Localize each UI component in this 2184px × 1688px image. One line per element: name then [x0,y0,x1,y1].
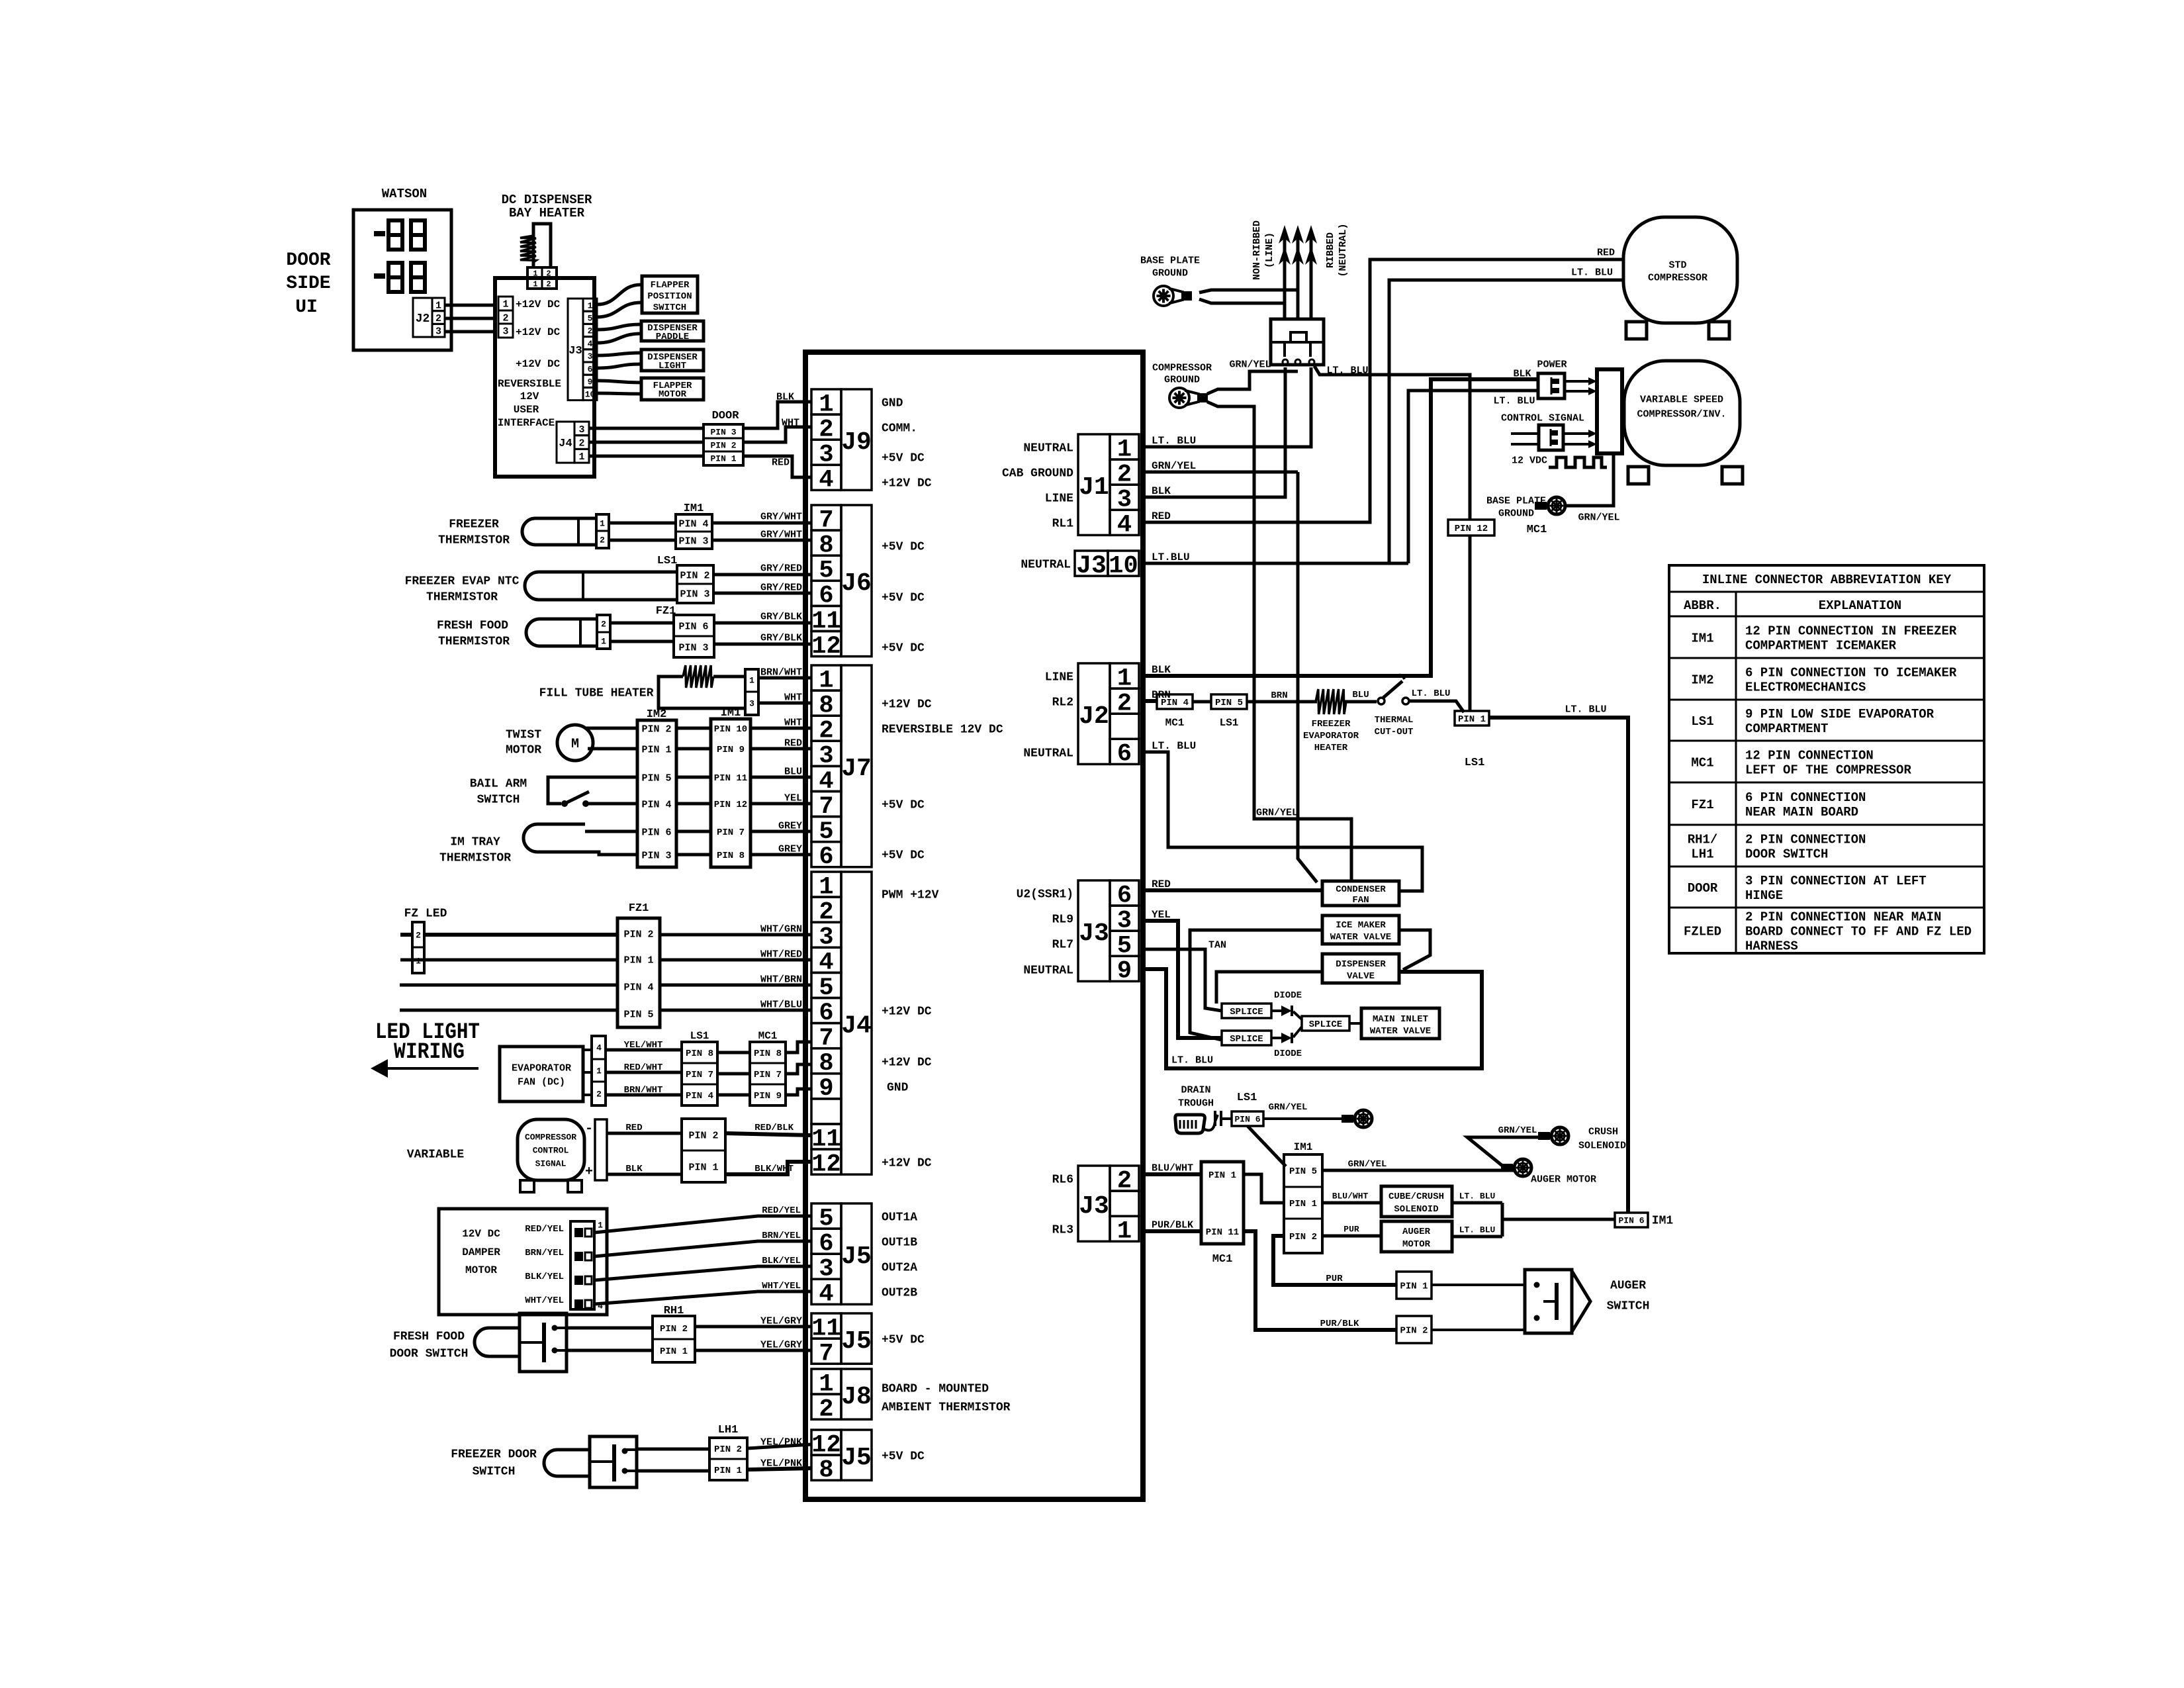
svg-text:2 PIN CONNECTION: 2 PIN CONNECTION [1745,832,1866,847]
svg-text:RED/YEL: RED/YEL [525,1224,564,1235]
svg-text:GRY/WHT: GRY/WHT [760,511,802,522]
wire PUR IM1 PIN2 to auger motor [1322,1225,1381,1236]
J2 pin labels [1023,671,1073,760]
svg-text:PIN 5: PIN 5 [1289,1166,1317,1177]
svg-text:VALVE: VALVE [1347,971,1375,982]
svg-text:3: 3 [502,326,508,337]
svg-text:2: 2 [416,931,421,941]
svg-text:RED/YEL: RED/YEL [762,1205,801,1216]
WATSON display box [353,210,451,350]
svg-text:J4: J4 [559,438,572,450]
svg-text:DOOR: DOOR [712,410,740,422]
svg-text:RL9: RL9 [1052,913,1073,926]
svg-text:(NEUTRAL): (NEUTRAL) [1338,223,1349,277]
svg-text:LT.BLU: LT.BLU [1152,551,1190,563]
svg-text:DISPENSER: DISPENSER [1336,959,1386,970]
svg-text:J3: J3 [1079,919,1109,948]
connector IM1 PIN5 PIN1 PIN2 [1284,1154,1322,1253]
svg-text:12: 12 [811,1150,841,1178]
svg-text:EVAPORATOR: EVAPORATOR [512,1062,571,1074]
svg-text:RED: RED [1152,878,1171,890]
svg-text:TAN: TAN [1208,939,1226,951]
svg-text:PIN 5: PIN 5 [1215,698,1243,708]
connector J4 (user interface) [557,422,589,463]
text DOOR SIDE UI [286,250,330,318]
svg-text:NEAR MAIN BOARD: NEAR MAIN BOARD [1745,805,1858,820]
label FZ1 [656,605,676,618]
damper motor connector pins [570,1221,603,1311]
J5 OUT pin function labels [882,1211,917,1299]
compressor terminal block [1271,319,1324,365]
svg-text:PIN 8: PIN 8 [686,1049,713,1059]
connector J7 (main board) [811,665,872,871]
svg-text:SOLENOID: SOLENOID [1394,1204,1438,1215]
svg-text:ICE MAKER: ICE MAKER [1336,920,1386,931]
box FLAPPER POSITION SWITCH [642,276,698,313]
svg-text:FREEZER DOOR: FREEZER DOOR [451,1448,537,1461]
POWER connector [1538,373,1565,399]
svg-text:PADDLE: PADDLE [656,332,689,342]
box DISPENSER PADDLE [641,321,704,342]
svg-text:COMPARTMENT ICEMAKER: COMPARTMENT ICEMAKER [1745,638,1897,653]
svg-text:M: M [571,737,579,752]
wire BRN J2-2 to PIN4 [1143,689,1171,701]
connector MC1 (evap fan) [750,1042,786,1105]
svg-text:BLK: BLK [776,391,794,402]
wires IM1 to J7 with colors [751,717,811,855]
freezer door switch box [590,1436,637,1487]
svg-text:OUT1A: OUT1A [882,1211,917,1224]
svg-text:1: 1 [596,1066,602,1076]
svg-text:LT. BLU: LT. BLU [1459,1192,1496,1201]
base plate ground terminal (left) [1154,286,1192,306]
svg-text:2: 2 [819,1395,833,1423]
wire PUR/BLK J3-1 to MC1 PIN11 [1143,1219,1201,1231]
svg-text:CONDENSER: CONDENSER [1336,884,1386,895]
label IM1 [721,707,741,720]
svg-text:BLK: BLK [1152,664,1171,676]
wire dispenser valve feed [1216,972,1322,1004]
svg-text:ABBR.: ABBR. [1684,598,1721,613]
wires damper motor to J5 with colors [594,1205,811,1304]
svg-text:STD: STD [1668,259,1686,271]
inverter box [1597,369,1622,453]
svg-text:PIN 2: PIN 2 [1289,1232,1317,1243]
wire GRN/YEL J1-2 [1143,460,1298,472]
svg-text:FILL TUBE HEATER: FILL TUBE HEATER [539,686,654,700]
box SPLICE (ice maker) [1222,1031,1271,1045]
svg-text:MC1: MC1 [1212,1253,1233,1266]
svg-text:SPLICE: SPLICE [1309,1019,1342,1030]
text CONTROL SIGNAL [1501,412,1584,424]
J3 relay pin labels [1017,888,1073,977]
connector J9 (main board) [811,389,872,494]
svg-text:NEUTRAL: NEUTRAL [1023,442,1073,455]
wire GRN/YEL drain trough ground [1263,1102,1343,1119]
svg-text:WHT/YEL: WHT/YEL [762,1281,801,1291]
evaporator fan connector 4 1 2 [583,1036,606,1105]
svg-text:BRN/WHT: BRN/WHT [760,667,802,678]
svg-text:BLK/YEL: BLK/YEL [525,1272,564,1282]
label LH1 [718,1424,739,1436]
svg-text:LS1: LS1 [657,555,678,567]
wire BLU heater to thermal cutout [1345,690,1377,702]
svg-text:FRESH FOOD: FRESH FOOD [393,1330,465,1343]
svg-text:BLU: BLU [1352,690,1369,700]
svg-text:MC1: MC1 [1691,755,1713,770]
J4 pin function labels [882,888,939,1170]
wire to FZ1 PIN5 [400,1009,617,1012]
svg-text:WHT/YEL: WHT/YEL [525,1295,564,1306]
wire LT. BLU J2-6 to condenser fan [1143,740,1422,891]
J8 labels [882,1382,1011,1414]
svg-text:LINE: LINE [1045,492,1073,505]
wire RED DOOR to J9-4 [743,456,811,477]
wire ice maker valve feed [1190,930,1322,1040]
wires GRY/WHT to J6 [712,511,811,540]
wires freezer door switch to LH1 [637,1449,709,1471]
svg-text:LH1: LH1 [718,1424,739,1436]
svg-text:LT. BLU: LT. BLU [1152,435,1196,447]
svg-text:PIN 2: PIN 2 [1400,1326,1428,1336]
thermal cut-out switch [1375,675,1414,737]
wire LT. BLU auger motor return [1452,1225,1502,1237]
svg-text:COMM.: COMM. [882,422,917,435]
box CUBE/CRUSH SOLENOID [1381,1186,1452,1217]
box SPLICE (dispenser) [1222,1004,1271,1018]
box SPLICE (main inlet) [1293,1011,1349,1037]
diode (ice maker) [1271,1033,1302,1059]
svg-text:PIN 4: PIN 4 [678,518,708,530]
wire LT. BLU neutral to std compressor [1389,267,1623,563]
svg-text:BAY HEATER: BAY HEATER [509,206,585,220]
7-segment display digits row 2 [374,263,425,292]
svg-text:HINGE: HINGE [1745,888,1783,903]
text IM TRAY THERMISTOR [439,835,511,865]
svg-text:GRN/YEL: GRN/YEL [1229,359,1271,370]
svg-text:+12V DC: +12V DC [516,326,561,338]
text VARIABLE [407,1148,465,1161]
svg-text:9: 9 [1117,958,1132,986]
svg-text:LS1: LS1 [1237,1092,1257,1104]
svg-text:GROUND: GROUND [1498,508,1534,519]
svg-text:9 PIN LOW SIDE EVAPORATOR: 9 PIN LOW SIDE EVAPORATOR [1745,707,1934,722]
svg-text:6 PIN CONNECTION: 6 PIN CONNECTION [1745,790,1866,805]
J3 auger pin labels [1052,1173,1073,1237]
connector PIN 6 (IM1) [1615,1213,1673,1227]
freezer evap thermistor bulb [525,572,677,600]
svg-text:LT. BLU: LT. BLU [1326,365,1368,376]
J3-10 pin label [1021,558,1071,571]
svg-text:J5: J5 [841,1243,872,1271]
svg-text:RH1/: RH1/ [1688,832,1718,847]
svg-text:GND: GND [882,397,903,410]
svg-text:1: 1 [600,519,605,529]
svg-text:PIN 8: PIN 8 [717,851,745,861]
svg-text:TROUGH: TROUGH [1178,1098,1214,1109]
svg-text:U2(SSR1): U2(SSR1) [1017,888,1073,901]
wire GRN/YEL line vertical to condenser fan corner [1298,472,1317,882]
svg-text:PIN 11: PIN 11 [714,773,747,784]
wire LT. BLU terminal block to MC1 PIN12 to LS1 PIN1 [1314,365,1470,711]
svg-text:BRN/YEL: BRN/YEL [525,1248,564,1258]
svg-text:PIN 4: PIN 4 [623,982,653,993]
wire BLU/WHT IM1 PIN1 to cube/crush [1322,1192,1381,1203]
svg-text:J4: J4 [841,1011,872,1040]
svg-text:FZ LED: FZ LED [404,907,447,920]
wire BLK DOOR to J9-1 [743,391,811,428]
base plate ground terminal (right) [1535,497,1565,514]
wire PIN4 to PIN5 [1193,700,1211,704]
connector IM2 (icemaker electromechanics) [637,720,676,867]
label GRN/YEL at terminal block [1229,359,1271,370]
svg-text:GROUND: GROUND [1164,374,1200,385]
svg-text:12 PIN CONNECTION IN FREEZER: 12 PIN CONNECTION IN FREEZER [1745,624,1957,638]
svg-text:INTERFACE: INTERFACE [498,417,555,429]
svg-text:BLK/WHT: BLK/WHT [754,1164,794,1174]
stub wires control signal [1511,434,1539,444]
svg-text:12V DC: 12V DC [462,1228,500,1240]
svg-text:PIN 1: PIN 1 [623,955,653,966]
svg-text:NEUTRAL: NEUTRAL [1023,964,1073,977]
compressor control terminal bar [585,1119,607,1180]
label POWER [1537,359,1567,370]
svg-text:ELECTROMECHANICS: ELECTROMECHANICS [1745,680,1866,694]
svg-text:BLU/WHT: BLU/WHT [1332,1192,1369,1201]
svg-text:9: 9 [588,377,593,387]
box EVAPORATOR FAN (DC) [500,1047,583,1102]
svg-text:PIN 1: PIN 1 [1458,714,1486,725]
wire BLK J1-3 to terminal block [1143,367,1285,497]
fresh food thermistor bulb [526,619,597,646]
svg-text:4: 4 [596,1043,602,1053]
STD COMPRESSOR blob [1623,217,1737,339]
svg-text:J9: J9 [841,428,872,457]
auger switch symbol [1525,1270,1649,1333]
svg-text:DIODE: DIODE [1274,1049,1302,1059]
wire FZ LED 2 to FZ1 PIN2 [400,933,617,937]
svg-text:3: 3 [588,352,593,361]
text FZ LED [404,907,447,920]
svg-text:MOTOR: MOTOR [506,743,541,757]
wires to auger switch [1432,1285,1525,1330]
svg-text:HARNESS: HARNESS [1745,939,1798,953]
svg-text:PIN 5: PIN 5 [641,773,671,784]
svg-text:PIN 2: PIN 2 [714,1444,742,1455]
label MC1 [758,1030,778,1042]
label NON-RIBBED (LINE) rotated [1251,220,1275,280]
svg-text:DAMPER: DAMPER [462,1246,500,1258]
svg-text:3: 3 [749,699,754,709]
svg-text:DOOR: DOOR [1688,881,1718,896]
wire LT. BLU cube/crush return [1452,1192,1502,1203]
wire BLK to PIN1 [607,1164,682,1174]
svg-text:PIN 3: PIN 3 [678,642,708,653]
svg-text:12V: 12V [520,391,539,402]
svg-text:FLAPPER: FLAPPER [651,280,690,291]
svg-text:NON-RIBBED: NON-RIBBED [1251,220,1263,280]
svg-text:AUGER: AUGER [1610,1279,1646,1292]
svg-text:PIN 1: PIN 1 [1400,1282,1428,1292]
svg-text:LEFT OF THE COMPRESSOR: LEFT OF THE COMPRESSOR [1745,763,1911,777]
svg-text:WATER VALVE: WATER VALVE [1370,1026,1431,1037]
svg-text:SIGNAL: SIGNAL [535,1159,567,1169]
svg-text:INLINE CONNECTOR ABBREVIATION: INLINE CONNECTOR ABBREVIATION KEY [1702,573,1952,587]
wire TAN J3-5 to splice [1143,939,1226,1011]
line cord arrows to terminal block [1279,225,1317,319]
svg-text:WHT/BRN: WHT/BRN [760,974,802,985]
box 12V DC DAMPER MOTOR [439,1209,607,1315]
svg-text:4: 4 [588,339,593,349]
wire to FZ1 PIN4 [400,984,617,987]
connector PIN 6 (drain trough LS1) [1221,1111,1263,1126]
text DC DISPENSER BAY HEATER [502,193,592,220]
svg-text:+5V DC: +5V DC [882,798,925,812]
wire GRN/YEL crush solenoid ground [1467,1125,1542,1168]
svg-text:WATER VALVE: WATER VALVE [1330,932,1391,943]
svg-text:GRN/YEL: GRN/YEL [1269,1102,1308,1113]
svg-text:DC DISPENSER: DC DISPENSER [502,193,592,207]
connector auger switch PIN 2 [1396,1316,1432,1343]
box DISPENSER VALVE [1322,954,1399,983]
svg-text:PIN 8: PIN 8 [754,1049,782,1059]
svg-text:FREEZER EVAP NTC: FREEZER EVAP NTC [405,575,520,588]
svg-text:CONTROL SIGNAL: CONTROL SIGNAL [1501,412,1584,424]
connector J3 (user interface) [568,299,597,400]
svg-text:PIN 4: PIN 4 [641,799,671,810]
svg-text:BRN: BRN [1271,690,1287,701]
svg-text:IM1: IM1 [1652,1214,1674,1227]
connector PIN 12 (MC1) [1448,520,1547,536]
svg-text:GRY/RED: GRY/RED [760,563,802,574]
box FLAPPER MOTOR [641,378,704,400]
wire WHT to J7-8 [758,692,811,703]
svg-text:LINE: LINE [1045,671,1073,684]
connector FZ1 (FZ LED harness) [617,918,660,1027]
svg-text:SPLICE: SPLICE [1230,1007,1263,1017]
svg-text:GRN/YEL: GRN/YEL [1578,512,1619,523]
svg-text:MC1: MC1 [1527,524,1547,536]
label RIBBED (NEUTRAL) rotated [1325,223,1349,277]
freezer thermistor bulb [522,518,596,545]
ground bolt (drain trough) [1342,1110,1372,1127]
wires FZ1 to J4 with colors [660,923,811,1010]
connector DOOR PIN3 PIN2 PIN1 [704,424,743,465]
wire PIN6 to IM1 PIN5 diagonal [1248,1126,1286,1166]
svg-text:REVERSIBLE 12V DC: REVERSIBLE 12V DC [882,723,1003,736]
UI voltage labels [498,299,561,429]
svg-text:6 PIN CONNECTION TO ICEMAKER: 6 PIN CONNECTION TO ICEMAKER [1745,665,1957,680]
text BASE PLATE GROUND (left) [1140,255,1200,279]
wire BRN PIN5 to heater [1247,690,1317,702]
ground bolt auger motor [1501,1159,1596,1185]
svg-text:+5V DC: +5V DC [882,1333,925,1346]
svg-text:GRN/YEL: GRN/YEL [1256,807,1298,818]
wire PUR/BLK MC1 PIN11 to auger switch PIN2 [1244,1231,1396,1330]
CONTROL SIGNAL connector [1539,425,1563,450]
svg-text:6: 6 [1117,741,1132,769]
wire LT. BLU returns to IM1 PIN6 [1502,1203,1615,1237]
svg-text:LS1: LS1 [1220,717,1239,729]
table INLINE CONNECTOR ABBREVIATION KEY [1669,565,1984,953]
svg-text:SOLENOID: SOLENOID [1578,1140,1626,1151]
svg-text:1: 1 [533,279,537,289]
svg-text:SWITCH: SWITCH [473,1465,516,1478]
svg-text:FZ1: FZ1 [1691,798,1713,812]
svg-text:DOOR SWITCH: DOOR SWITCH [1745,847,1828,861]
wires twist motor to IM2 [586,728,637,749]
IM tray thermistor bulb [523,824,585,852]
svg-text:6: 6 [588,364,593,374]
user interface box [495,278,594,477]
svg-text:REVERSIBLE: REVERSIBLE [498,378,561,390]
svg-text:SPLICE: SPLICE [1230,1034,1263,1045]
svg-text:BAIL ARM: BAIL ARM [470,777,527,790]
svg-text:PIN 7: PIN 7 [717,827,745,838]
connector J5 OUT (main board) [811,1203,872,1309]
svg-text:PIN 1: PIN 1 [1208,1170,1236,1181]
svg-text:SWITCH: SWITCH [477,793,520,806]
svg-text:+5V DC: +5V DC [882,451,925,465]
wire BRN/WHT to J7-1 [758,667,811,678]
svg-text:3: 3 [435,326,441,338]
wire MC1 PIN1 to IM1 PIN1 [1244,1174,1284,1203]
svg-text:1: 1 [588,301,593,310]
connector LS1 (evap fan) [682,1042,717,1105]
svg-text:1: 1 [435,300,441,311]
text FREEZER EVAP NTC THERMISTOR [405,575,520,604]
svg-text:VARIABLE: VARIABLE [407,1148,465,1161]
svg-text:RL7: RL7 [1052,938,1073,951]
svg-text:PIN 1: PIN 1 [710,454,736,464]
wire compressor ground up to terminal block [1207,371,1298,394]
svg-text:DIODE: DIODE [1274,990,1302,1001]
svg-text:COMPRESSOR: COMPRESSOR [1152,362,1212,373]
connector LS1 PIN2 PIN3 (evap thermistor) [677,565,713,603]
connector J5 +5V (main board) [811,1313,872,1368]
svg-text:FRESH FOOD: FRESH FOOD [437,619,508,632]
svg-text:PIN 7: PIN 7 [754,1070,782,1080]
svg-text:FZ1: FZ1 [629,902,649,915]
svg-text:RED/BLK: RED/BLK [754,1123,794,1133]
svg-text:PIN 1: PIN 1 [688,1162,718,1173]
wire PUR IM1 PIN2 to auger switch PIN1 [1273,1236,1396,1285]
svg-text:PIN 7: PIN 7 [686,1070,713,1080]
svg-text:FREEZER: FREEZER [1312,719,1351,729]
text FREEZER THERMISTOR [438,518,510,547]
connector auger switch PIN 1 [1396,1272,1432,1299]
connector J5 door (main board) [811,1430,872,1484]
text DRAIN TROUGH [1178,1084,1214,1109]
svg-text:BRN/YEL: BRN/YEL [762,1231,801,1241]
drain trough symbol [1175,1111,1221,1133]
svg-text:RED: RED [772,457,790,468]
svg-text:RL3: RL3 [1052,1223,1073,1237]
svg-text:2: 2 [502,312,508,324]
connector PIN 1 (LS1) [1455,711,1489,769]
bail arm switch symbol [548,777,637,807]
svg-text:WATSON: WATSON [382,187,427,201]
wire LT. BLU neutral to inverter power [1408,391,1538,563]
text FRESH FOOD DOOR SWITCH [390,1330,469,1360]
svg-text:J8: J8 [841,1383,872,1411]
svg-text:5: 5 [588,313,593,323]
label RH1 [664,1305,684,1317]
svg-text:THERMISTOR: THERMISTOR [438,534,510,547]
svg-text:MC1: MC1 [758,1030,778,1042]
svg-text:PIN 2: PIN 2 [660,1324,688,1335]
fill tube heater element [659,665,745,708]
